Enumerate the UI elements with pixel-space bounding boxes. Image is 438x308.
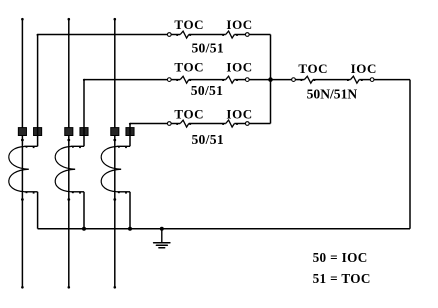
junction phase B return — [82, 227, 86, 231]
wire branch 3 left segment — [130, 123, 167, 125]
svg-text:51 = TOC: 51 = TOC — [313, 271, 371, 286]
svg-text:50/51: 50/51 — [191, 41, 223, 56]
relay 50 phase B IOC — [222, 76, 249, 83]
wire branch 1 left segment — [38, 34, 168, 36]
svg-text:TOC: TOC — [174, 107, 204, 122]
junction branch 3 corner — [129, 123, 131, 125]
ground — [154, 229, 170, 248]
phase B primary lead — [68, 18, 71, 289]
relay 51 phase B TOC — [167, 76, 191, 83]
wire phase B secondary lead lower — [83, 192, 85, 229]
wire phase A secondary lead lower — [37, 192, 39, 229]
relay 50 phase A IOC — [222, 31, 249, 38]
junction ground tap — [160, 227, 164, 231]
phase A primary lead — [21, 18, 24, 289]
relay 50 phase C IOC — [222, 120, 249, 127]
wire branch 1 mid segment — [189, 34, 226, 36]
wire right bus vertical — [270, 35, 272, 124]
svg-text:50/51: 50/51 — [191, 83, 223, 98]
wire branch 3 mid segment — [189, 123, 226, 125]
wire branch 1 right segment — [249, 34, 270, 36]
junction branch 1 corner — [37, 34, 39, 36]
wire phase C secondary lead upper — [129, 124, 131, 147]
phase C primary lead — [114, 18, 117, 289]
CT C — [101, 128, 134, 201]
CT B — [55, 128, 88, 201]
relay 51 phase A TOC — [167, 31, 191, 38]
svg-text:IOC: IOC — [226, 60, 252, 75]
svg-text:IOC: IOC — [226, 17, 252, 32]
junction phase C return — [128, 227, 132, 231]
wire neutral branch right segment — [374, 79, 410, 81]
relay 50N IOC — [347, 76, 374, 83]
svg-text:50/51: 50/51 — [191, 132, 223, 147]
wire branch 2 right segment — [249, 79, 270, 81]
relay 51N TOC — [292, 76, 316, 83]
junction residual node — [268, 77, 273, 82]
wire neutral branch left segment — [271, 79, 292, 81]
wire branch 3 right segment — [249, 123, 270, 125]
wire bottom return bus — [38, 228, 410, 230]
svg-text:IOC: IOC — [226, 107, 252, 122]
CT A — [9, 128, 42, 201]
wire phase C secondary lead lower — [129, 192, 131, 229]
wire neutral branch mid segment — [313, 79, 351, 81]
svg-text:TOC: TOC — [174, 17, 204, 32]
wire right side vertical — [409, 80, 411, 229]
svg-text:TOC: TOC — [174, 60, 204, 75]
svg-text:TOC: TOC — [298, 61, 328, 76]
svg-text:50N/51N: 50N/51N — [307, 86, 358, 101]
wire phase A secondary lead upper — [37, 35, 39, 147]
svg-text:IOC: IOC — [351, 61, 377, 76]
wire branch 2 mid segment — [189, 79, 226, 81]
junction branch 2 corner — [83, 79, 85, 81]
relay 51 phase C TOC — [167, 120, 191, 127]
wire phase B secondary lead upper — [83, 80, 85, 147]
wire branch 2 left segment — [84, 79, 167, 81]
svg-text:50 = IOC: 50 = IOC — [313, 250, 368, 265]
